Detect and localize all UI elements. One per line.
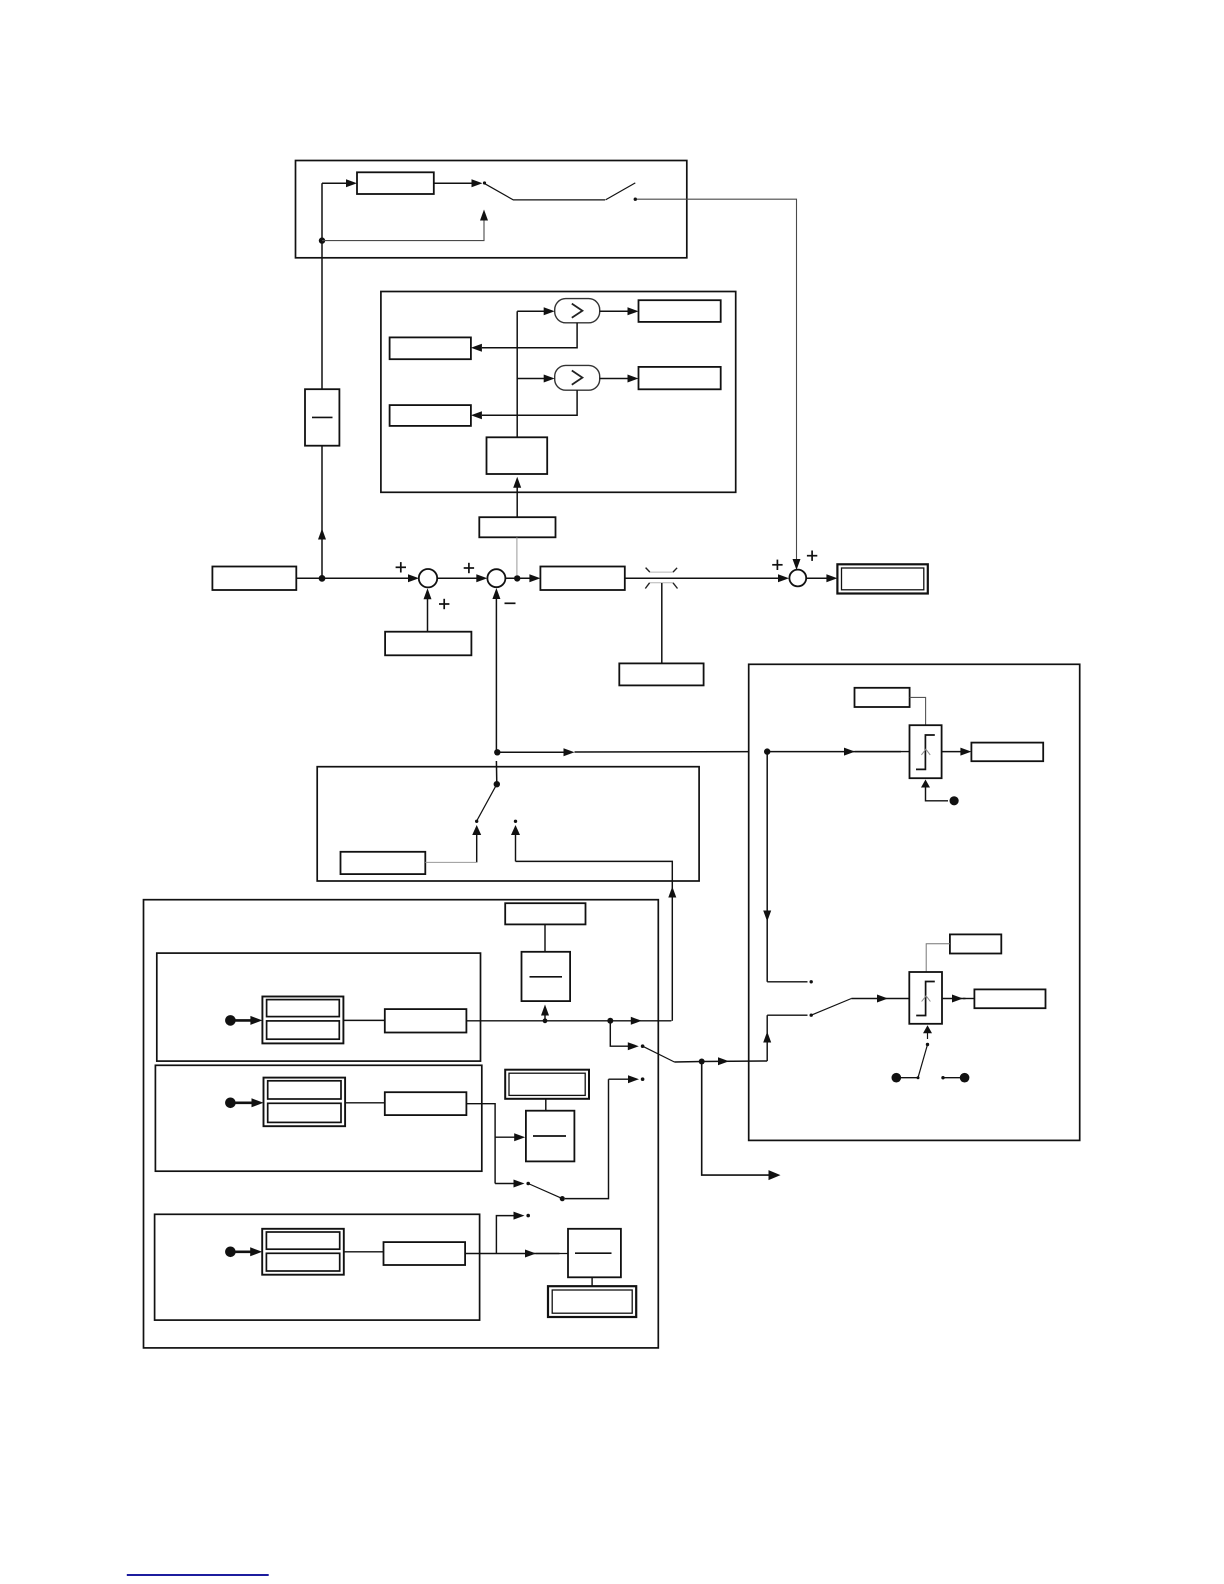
switch SW-E arm (477, 784, 497, 821)
display block T2 (double border) (505, 1070, 589, 1099)
wire: SW1 pole output (674, 1061, 701, 1064)
wire: right contact feed from container F (516, 861, 677, 1020)
junction dot SW1-out (699, 1059, 705, 1065)
wire: S1-out to riser corner (610, 1017, 671, 1025)
block TD1 (rate param) (855, 688, 910, 707)
wire: SW1-out down to dangling arrow (702, 1062, 781, 1181)
wire: D3 to S3b (344, 1251, 384, 1253)
switch SW-E left contact (472, 820, 481, 863)
block T1 (505, 903, 585, 924)
block B-out1 (639, 300, 721, 322)
wire: into B-bottom from mid block (513, 477, 521, 517)
junction dot at F2 tap (543, 1018, 548, 1023)
display block OUT2 (double border) (548, 1286, 636, 1317)
thick arrow P3 into D3 (230, 1247, 262, 1256)
switch SW2 upper contact (495, 1180, 530, 1188)
block B-left2 (390, 405, 471, 426)
block MID (above main line) (479, 517, 555, 537)
wire: R2 to B-left2 (471, 390, 577, 419)
wire: external feed up to SW-D lower (763, 1015, 771, 1061)
sub-container S2 frame (155, 1065, 481, 1171)
input port dot P3 (225, 1247, 236, 1258)
output block OUT1 (double border) (837, 564, 927, 593)
sum junction S3 (789, 570, 806, 587)
thick arrow P1 into D1 (230, 1016, 262, 1025)
wire: S1 output line (466, 1020, 610, 1022)
wire: M to sum S3 (625, 574, 789, 582)
fraction block F1 (305, 389, 339, 446)
plus sign right of S3 (807, 551, 817, 561)
container E (switch frame) (317, 767, 699, 881)
wire: E1 to left contact (thin) (425, 861, 476, 863)
wire: tap up to SW2 lower contact (496, 1212, 530, 1254)
switch SW-A arm and rail (485, 183, 637, 201)
block E1 (341, 852, 426, 874)
block S2b (385, 1092, 467, 1115)
wire: D2 to S2b (345, 1102, 385, 1104)
switch SW1 arm (643, 1046, 675, 1062)
switch SW-D upper contact stub (767, 980, 813, 983)
relational operator R1 (555, 299, 600, 323)
block under saturation (619, 663, 703, 685)
block A1 (357, 172, 434, 194)
wire: S2 to main block M (505, 574, 540, 582)
junction dot after S2 (514, 575, 520, 581)
switch SW-D arm (811, 999, 851, 1016)
block BD2 (974, 989, 1045, 1008)
wire: tap up into F2 (541, 1005, 549, 1021)
block TD2 (rate param) (950, 934, 1001, 953)
wire: tap into F3 (495, 1133, 525, 1141)
sub-container S1 frame (157, 953, 481, 1061)
wire: S1 to sum S2 (437, 574, 487, 582)
switch SW-D2 control arm into RL2 (917, 1025, 933, 1079)
double block D2 (264, 1078, 346, 1127)
block B-left1 (390, 337, 471, 359)
container F (input conditioning frame) (144, 900, 659, 1348)
wire: R1 to B-left1 (471, 323, 577, 352)
container D (rate limit frame) (749, 664, 1080, 1140)
block S3b (384, 1242, 466, 1265)
wire: switch control from junction A (322, 210, 488, 241)
junction dot A (319, 237, 325, 243)
junction dot on feedback line (494, 749, 500, 755)
main block M (540, 567, 624, 591)
wire: riser inside B feeding R1 and R2 (517, 307, 555, 437)
rate limiter RL1 (910, 725, 942, 778)
wire: into rate limiter RL1 (767, 748, 909, 756)
wire: feedback junction to container D (497, 748, 767, 756)
switch SW1 upper contact feed (610, 1021, 644, 1050)
wire: RL2 output (942, 995, 974, 1003)
wire: TD1 to RL1 top (910, 697, 926, 725)
wire: F4 down to OUT2 (591, 1277, 593, 1286)
wire A1 to switch input port (434, 179, 486, 187)
wire: input riser into A1 with junction (322, 179, 357, 389)
plus sign at S2 left (464, 563, 474, 573)
wire: RL1 output (942, 748, 972, 756)
wire: D left riser down (763, 752, 771, 982)
wire: S3 output into F4 (465, 1250, 568, 1258)
wire: D1 to S1b (343, 1019, 384, 1021)
wire: S2 output to switch SW2 (466, 1104, 495, 1184)
input block IN1 (212, 567, 296, 591)
junction dot main-line left (319, 575, 326, 582)
minus sign below S2 (505, 602, 516, 604)
switch SW-E right contact (511, 820, 520, 862)
port dot SW-D2 right (941, 1073, 969, 1083)
block B-out2 (639, 367, 721, 389)
switch SW2 arm (528, 1184, 562, 1199)
plus sign left of S3 (772, 560, 782, 570)
block B-bottom (487, 437, 548, 474)
wire: IN1 to sum S1 (296, 574, 419, 582)
junction dot D-in (764, 748, 770, 754)
container B (comparison subsystem frame) (381, 292, 736, 493)
sum junction S2 (487, 569, 505, 587)
wire: SW-A output to sum S3 (down right side) (637, 199, 801, 570)
input port dot P2 (225, 1098, 236, 1109)
wire: SW-D pole into RL2 (851, 995, 909, 1003)
wire: block up into S1 (424, 588, 432, 631)
footer rule (blue) (127, 1574, 269, 1576)
block S1b (385, 1009, 467, 1032)
sum junction S1 (419, 569, 437, 587)
block under S1 (385, 632, 471, 656)
switch SW1 lower contact feed (565, 1075, 644, 1198)
port dot SW-D2 left (892, 1073, 919, 1083)
wire: RL1 control stub with port dot (921, 780, 959, 806)
switch SW2 pole dot (560, 1196, 565, 1201)
plus sign below S1 (439, 599, 449, 609)
fraction block F3 (526, 1111, 575, 1162)
saturation crimp mark (645, 568, 677, 589)
wire: SW1-out to container D (702, 1057, 768, 1065)
block BD1 (971, 743, 1043, 762)
rate limiter RL2 (909, 972, 942, 1024)
wire: R1 output (600, 307, 639, 315)
fraction block F2 (522, 952, 571, 1001)
wire: F3 up to T2 (545, 1099, 547, 1111)
wire: TD2 to RL2 top (thin) (926, 944, 950, 972)
double block D3 (262, 1229, 344, 1275)
container A (switch subsystem frame) (296, 161, 687, 258)
thick arrow P2 into D2 (230, 1098, 263, 1107)
input port dot P1 (225, 1015, 236, 1026)
wire: S3 to output block (806, 574, 837, 582)
sub-container S3 frame (155, 1214, 480, 1320)
switch SW-E pole (494, 761, 500, 787)
fraction block F4 (568, 1229, 621, 1278)
plus sign at S1 left (396, 562, 406, 572)
wire: R2 output (600, 375, 639, 383)
wire: F2 to T1 (544, 924, 546, 951)
wire: MID down to main junction (thin) (516, 537, 518, 575)
switch SW-D lower contact stub (767, 1014, 813, 1017)
wire: feedback up into S2 (492, 588, 500, 752)
junction dot S1-out (607, 1018, 613, 1024)
double block D1 (262, 997, 343, 1044)
wire: saturation down to block (661, 583, 663, 663)
wire: F1 down to main line with up arrow (318, 446, 326, 579)
relational operator R2 (555, 365, 600, 390)
